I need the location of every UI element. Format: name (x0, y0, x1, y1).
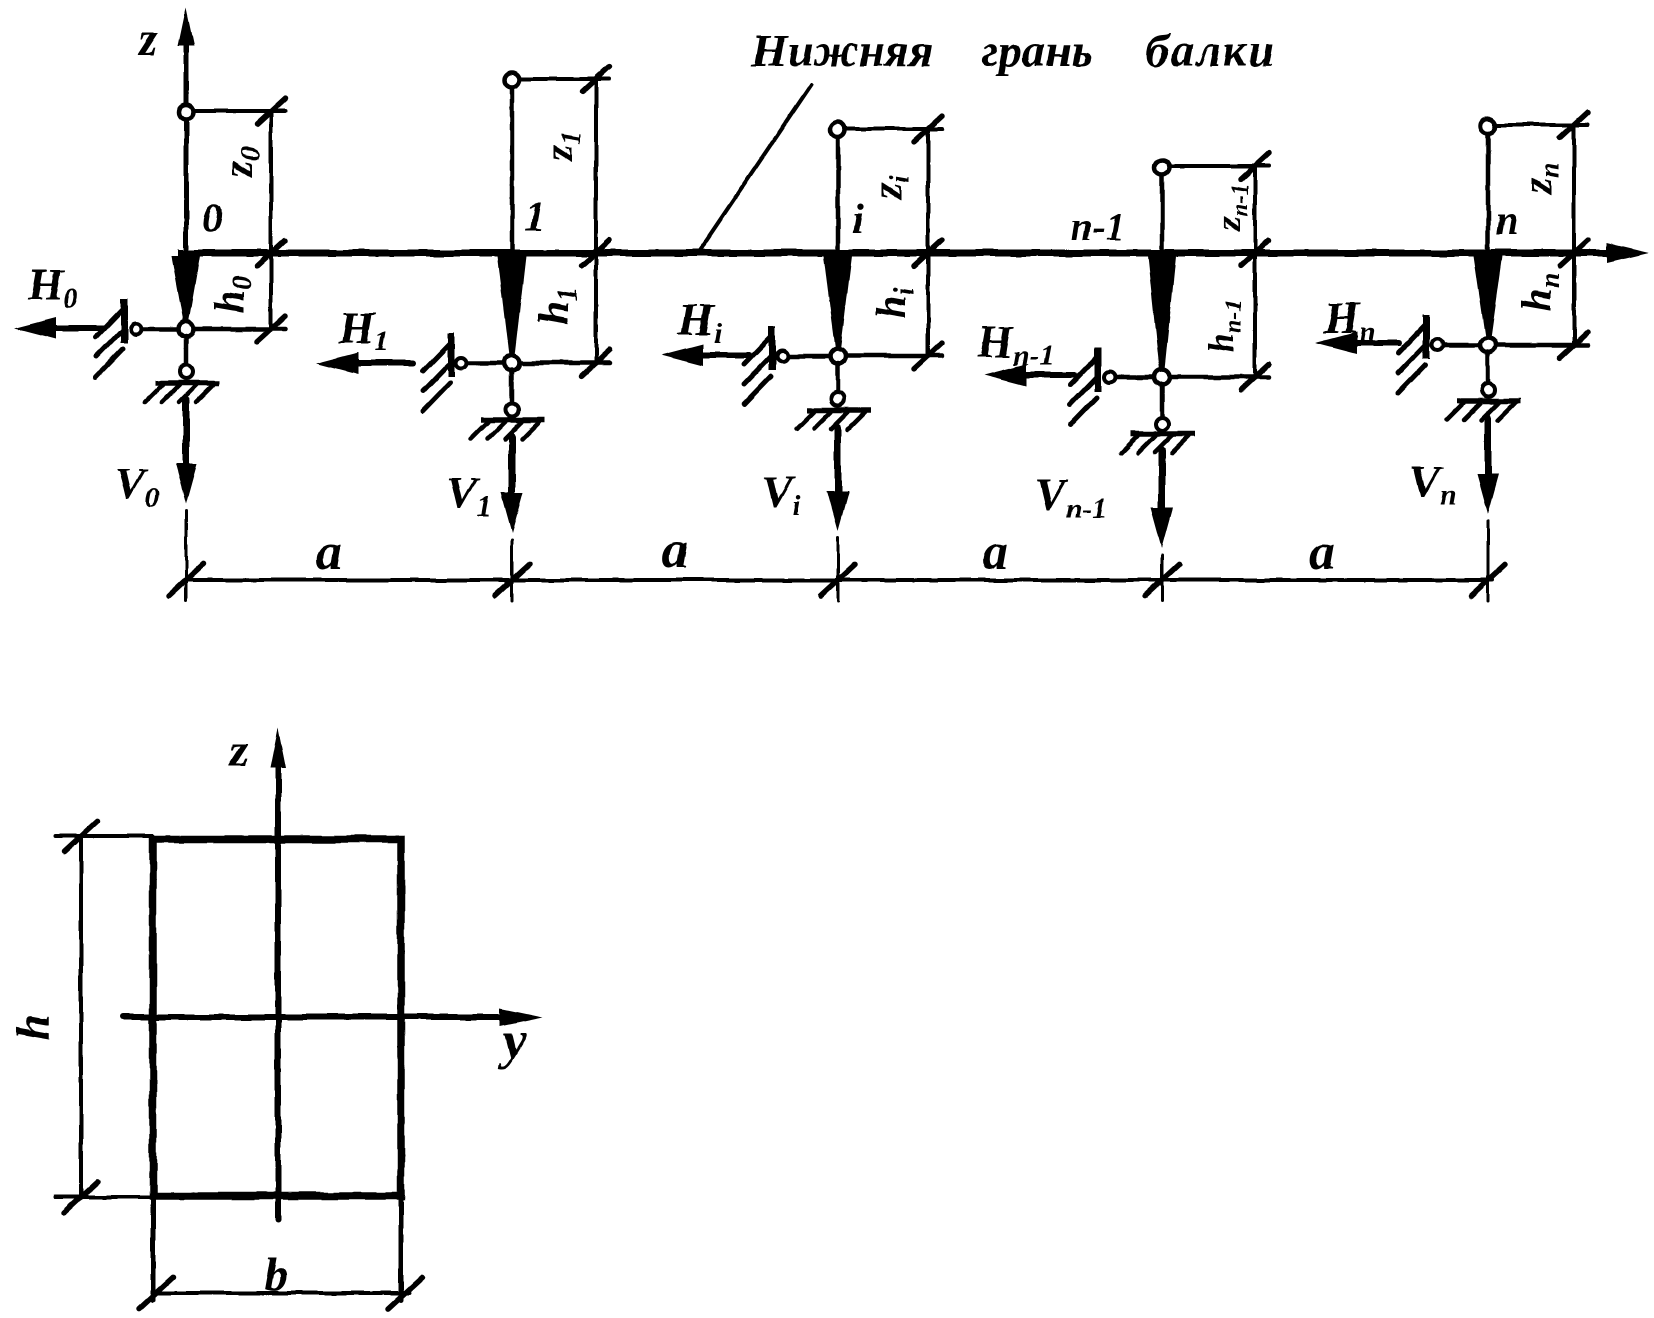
svg-text:Нижняя: Нижняя (750, 25, 933, 77)
svg-text:0: 0 (202, 196, 223, 242)
svg-text:b: b (264, 1248, 288, 1301)
svg-text:a: a (982, 524, 1008, 581)
svg-text:a: a (662, 522, 688, 579)
svg-text:a: a (1309, 524, 1335, 581)
svg-text:грань: грань (981, 25, 1093, 77)
svg-text:i: i (852, 197, 864, 243)
svg-text:z: z (137, 13, 158, 66)
svg-text:z: z (228, 724, 249, 777)
svg-text:a: a (316, 524, 342, 581)
svg-text:n-1: n-1 (1070, 204, 1126, 249)
svg-text:h: h (7, 1014, 60, 1041)
svg-text:n: n (1495, 198, 1518, 244)
svg-text:балки: балки (1145, 25, 1276, 77)
svg-text:1: 1 (525, 195, 546, 241)
